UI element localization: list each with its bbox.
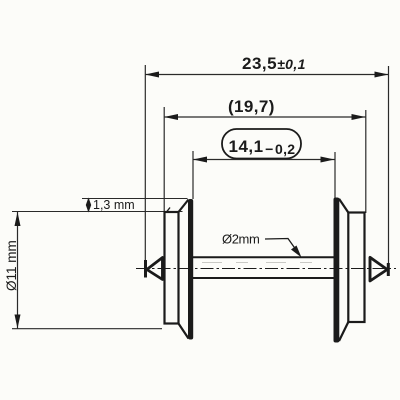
arrow right 19,7 [352,114,366,120]
arrow right 14,1 [321,157,335,163]
axle centerline (dash-dot) [136,268,396,270]
left axle tip flat end [144,260,147,278]
svg-text:23,5±0,1: 23,5±0,1 [242,54,306,73]
double arrow 1,3 [88,199,90,212]
arrow left 23,5 [145,72,159,78]
right wheel tread slant bottom [339,322,348,341]
svg-text:1,3 mm: 1,3 mm [93,198,135,212]
reference line 1,3 bottom / Ø11 top extension [12,211,183,213]
left wheel tread slant top [179,200,189,213]
small tick on reference line [167,208,171,213]
reference line 1,3 top (flange top) [82,198,188,200]
right wheel back face [348,213,364,323]
extension line left 19,7 (to left wheel back) [163,107,165,212]
stadium frame around 14,1-0,2 [222,129,301,159]
extension line right 14,1 (to right flange) [334,152,336,198]
right axle cone [370,257,387,281]
left wheel flange (filled bar) [188,199,193,340]
arrow right 23,5 [375,72,389,78]
right axle tip flat end [387,263,390,276]
arrow left 14,1 [193,157,207,163]
dimension line 23,5 [145,74,389,76]
vertical dimension line Ø11 [17,212,19,329]
axle shading dash upper [202,262,330,264]
extension line right 23,5 (to right axle tip) [388,66,390,265]
right wheel flange (filled bar) [334,198,340,343]
svg-text:(19,7): (19,7) [228,97,275,116]
left axle cone [147,258,163,280]
leader line Ø2mm [265,239,299,255]
right axle cone base bar [369,257,372,281]
extension line left 23,5 (to left axle tip) [144,65,146,277]
svg-text:Ø2mm: Ø2mm [222,232,259,247]
extension line right 19,7 (to right wheel back) [365,110,367,213]
extension line Ø11 bottom [12,328,162,330]
arrow bottom Ø11 [15,315,21,329]
svg-text:Ø11 mm: Ø11 mm [4,240,19,291]
dimension line 19,7 [164,116,366,118]
leader arrowhead Ø2mm [291,246,302,258]
dimension line 14,1 [193,159,335,161]
arrow left 19,7 [164,114,178,120]
left wheel back face [165,212,179,324]
arrow top Ø11 [15,212,21,226]
left axle cone base bar [161,257,164,280]
right wheel tread slant top [339,199,348,213]
axle shaft top line [193,256,335,258]
extension line left 14,1 (to left flange) [192,151,194,199]
left wheel tread slant bottom [179,324,189,339]
axle shaft bottom line [193,277,335,279]
